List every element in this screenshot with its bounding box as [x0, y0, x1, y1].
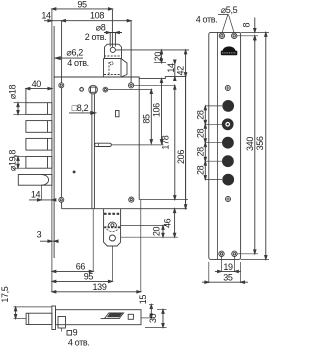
svg-text:⌀19,8: ⌀19,8	[7, 150, 17, 172]
svg-text:35: 35	[223, 272, 233, 282]
svg-text:4 отв.: 4 отв.	[68, 337, 90, 347]
svg-text:19: 19	[223, 262, 233, 272]
svg-text:15: 15	[138, 295, 148, 305]
svg-text:3: 3	[37, 229, 42, 239]
svg-text:85: 85	[142, 114, 152, 124]
svg-text:95: 95	[84, 271, 94, 281]
svg-text:20: 20	[152, 227, 162, 237]
svg-text:2 отв.: 2 отв.	[85, 32, 107, 42]
svg-text:⌀8: ⌀8	[96, 23, 106, 33]
svg-text:14: 14	[41, 11, 51, 21]
svg-text:28: 28	[195, 110, 205, 120]
svg-text:356: 356	[255, 136, 265, 150]
svg-text:28: 28	[195, 129, 205, 139]
svg-text:4 отв.: 4 отв.	[67, 58, 89, 68]
svg-text:17,5: 17,5	[0, 286, 10, 302]
svg-text:⌀5,5: ⌀5,5	[221, 5, 238, 15]
svg-text:28: 28	[195, 147, 205, 157]
svg-text:46: 46	[162, 218, 172, 228]
svg-text:8: 8	[241, 23, 251, 28]
svg-text:139: 139	[93, 282, 107, 292]
svg-text:14: 14	[166, 63, 176, 73]
svg-text:66: 66	[76, 261, 86, 271]
svg-text:108: 108	[90, 11, 104, 21]
svg-text:178: 178	[161, 135, 171, 149]
svg-text:95: 95	[77, 0, 87, 10]
svg-text:⌀18: ⌀18	[7, 84, 17, 99]
svg-text:106: 106	[152, 103, 162, 117]
svg-text:4 отв.: 4 отв.	[196, 15, 218, 25]
svg-text:14: 14	[31, 190, 41, 200]
svg-text:340: 340	[245, 137, 255, 151]
svg-text:⌀6,2: ⌀6,2	[66, 47, 83, 57]
svg-text:28: 28	[195, 165, 205, 175]
svg-text:9: 9	[73, 328, 78, 338]
svg-text:□8,2: □8,2	[72, 103, 89, 113]
svg-text:30: 30	[148, 314, 158, 324]
svg-text:42: 42	[176, 66, 186, 76]
svg-text:40: 40	[32, 79, 42, 89]
svg-text:206: 206	[176, 150, 186, 164]
svg-text:20: 20	[153, 52, 163, 62]
